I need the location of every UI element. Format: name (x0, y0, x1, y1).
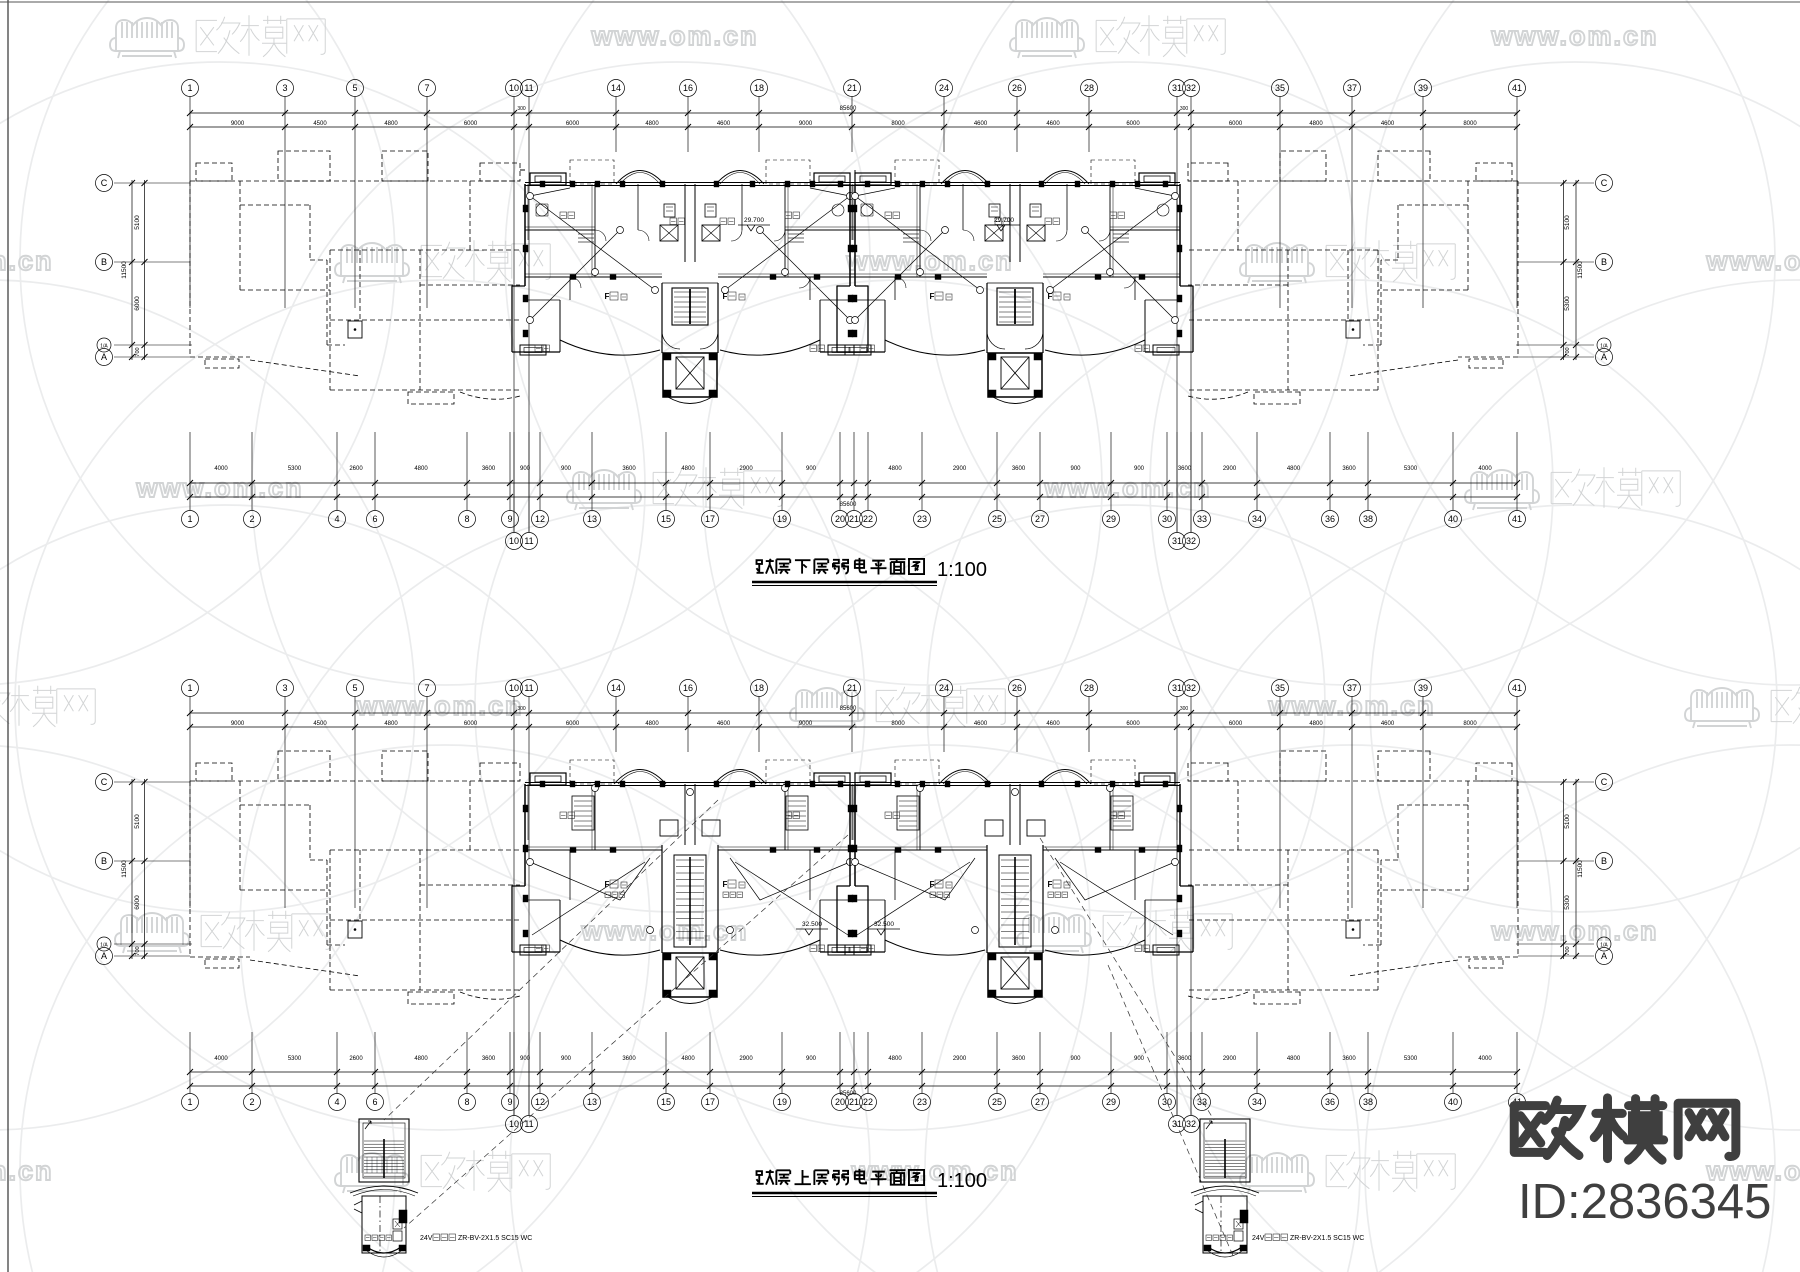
svg-text:2900: 2900 (1223, 466, 1237, 472)
svg-text:12: 12 (535, 514, 545, 524)
svg-text:4800: 4800 (414, 1056, 428, 1062)
svg-text:6000: 6000 (1126, 721, 1140, 727)
svg-text:www.om.cn: www.om.cn (1490, 21, 1658, 51)
svg-text:C: C (101, 777, 108, 787)
svg-text:4800: 4800 (414, 466, 428, 472)
svg-text:11: 11 (524, 536, 533, 546)
svg-text:10: 10 (509, 83, 519, 93)
svg-text:4600: 4600 (1046, 721, 1060, 727)
svg-text:F: F (930, 292, 935, 301)
svg-text:1:100: 1:100 (937, 1170, 987, 1192)
svg-text:6000: 6000 (134, 296, 141, 311)
svg-text:31: 31 (1172, 83, 1182, 93)
svg-text:4800: 4800 (384, 121, 398, 127)
svg-text:700: 700 (135, 347, 141, 356)
svg-text:15: 15 (661, 514, 671, 524)
svg-text:4800: 4800 (1309, 121, 1323, 127)
svg-text:www.om.cn: www.om.cn (845, 246, 1013, 276)
svg-text:B: B (1601, 856, 1607, 866)
svg-text:B: B (1601, 257, 1607, 267)
svg-text:B: B (101, 856, 107, 866)
svg-text:32.500: 32.500 (874, 921, 894, 928)
svg-text:6000: 6000 (566, 121, 580, 127)
svg-text:5300: 5300 (1404, 1056, 1418, 1062)
svg-text:6000: 6000 (566, 721, 580, 727)
svg-text:8: 8 (464, 1097, 469, 1107)
svg-text:24V: 24V (1252, 1235, 1265, 1242)
svg-text:www.om.cn: www.om.cn (1705, 246, 1800, 276)
svg-text:2: 2 (249, 514, 254, 524)
svg-text:1: 1 (187, 514, 192, 524)
svg-text:29: 29 (1106, 1097, 1116, 1107)
svg-text:700: 700 (1565, 946, 1571, 955)
svg-text:1/A: 1/A (1600, 943, 1608, 949)
svg-text:F: F (1048, 292, 1053, 301)
svg-text:11500: 11500 (1577, 261, 1584, 279)
svg-text:5300: 5300 (1404, 466, 1418, 472)
svg-text:22: 22 (863, 514, 873, 524)
svg-text:2900: 2900 (953, 466, 967, 472)
svg-text:85600: 85600 (840, 502, 857, 508)
svg-text:10: 10 (509, 536, 519, 546)
svg-text:4000: 4000 (1478, 1056, 1492, 1062)
svg-text:2900: 2900 (739, 466, 753, 472)
svg-text:6000: 6000 (464, 121, 478, 127)
svg-text:1: 1 (187, 1097, 192, 1107)
svg-text:8000: 8000 (1463, 721, 1477, 727)
svg-text:C: C (101, 178, 108, 188)
svg-text:2600: 2600 (349, 466, 363, 472)
svg-text:38: 38 (1363, 1097, 1373, 1107)
svg-text:16: 16 (683, 83, 693, 93)
svg-text:F: F (723, 880, 728, 889)
svg-text:2: 2 (249, 1097, 254, 1107)
svg-text:4800: 4800 (681, 466, 695, 472)
svg-text:F: F (1048, 880, 1053, 889)
svg-text:23: 23 (917, 514, 927, 524)
svg-text:3600: 3600 (1012, 466, 1026, 472)
svg-text:5100: 5100 (1564, 215, 1571, 230)
svg-text:4800: 4800 (681, 1056, 695, 1062)
svg-text:32: 32 (1186, 536, 1196, 546)
svg-text:30: 30 (1162, 514, 1172, 524)
svg-text:3: 3 (282, 83, 287, 93)
svg-text:www.om.cn: www.om.cn (135, 473, 303, 503)
svg-text:1/A: 1/A (100, 344, 108, 350)
svg-text:15: 15 (661, 1097, 671, 1107)
svg-text:11500: 11500 (121, 261, 128, 279)
svg-text:4600: 4600 (1381, 121, 1395, 127)
svg-text:900: 900 (806, 1056, 817, 1062)
svg-text:300: 300 (1180, 106, 1189, 112)
svg-text:31: 31 (1172, 1119, 1182, 1129)
svg-text:4800: 4800 (645, 121, 659, 127)
svg-text:17: 17 (705, 1097, 715, 1107)
svg-text:700: 700 (135, 946, 141, 955)
svg-text:3600: 3600 (482, 466, 496, 472)
svg-text:B: B (101, 257, 107, 267)
svg-text:13: 13 (587, 514, 597, 524)
svg-text:900: 900 (561, 466, 572, 472)
svg-text:900: 900 (806, 466, 817, 472)
svg-text:33: 33 (1197, 514, 1207, 524)
svg-text:5: 5 (352, 683, 357, 693)
svg-text:A: A (101, 951, 107, 961)
svg-text:3600: 3600 (1178, 1056, 1192, 1062)
svg-text:F: F (723, 292, 728, 301)
svg-text:4800: 4800 (1287, 1056, 1301, 1062)
svg-text:www.om.cn: www.om.cn (580, 916, 748, 946)
svg-text:7: 7 (424, 83, 429, 93)
svg-text:6000: 6000 (134, 895, 141, 910)
svg-text:39: 39 (1418, 683, 1428, 693)
svg-text:6000: 6000 (1126, 121, 1140, 127)
svg-text:41: 41 (1512, 83, 1522, 93)
svg-text:4600: 4600 (717, 121, 731, 127)
svg-text:34: 34 (1252, 1097, 1262, 1107)
svg-text:9000: 9000 (799, 721, 813, 727)
svg-text:F: F (605, 292, 610, 301)
svg-text:11: 11 (524, 83, 533, 93)
svg-text:F: F (605, 880, 610, 889)
svg-text:5300: 5300 (1564, 895, 1571, 910)
svg-text:33: 33 (1197, 1097, 1207, 1107)
svg-text:11500: 11500 (1577, 860, 1584, 878)
svg-text:4800: 4800 (645, 721, 659, 727)
svg-text:900: 900 (1134, 466, 1145, 472)
svg-text:5: 5 (352, 83, 357, 93)
svg-text:8000: 8000 (891, 121, 905, 127)
svg-text:13: 13 (587, 1097, 597, 1107)
svg-text:14: 14 (611, 83, 621, 93)
svg-text:4: 4 (334, 1097, 339, 1107)
svg-text:www.om.cn: www.om.cn (590, 21, 758, 51)
svg-text:6: 6 (372, 1097, 377, 1107)
svg-text:11500: 11500 (121, 860, 128, 878)
svg-text:10: 10 (509, 683, 519, 693)
svg-text:8: 8 (464, 514, 469, 524)
svg-text:4500: 4500 (313, 721, 327, 727)
svg-text:25: 25 (992, 514, 1002, 524)
svg-text:1:100: 1:100 (937, 559, 987, 581)
svg-text:www.om.cn: www.om.cn (355, 691, 523, 721)
svg-text:29.700: 29.700 (744, 217, 764, 224)
svg-text:4600: 4600 (717, 721, 731, 727)
svg-text:23: 23 (917, 1097, 927, 1107)
svg-text:19: 19 (777, 514, 787, 524)
svg-text:20: 20 (835, 1097, 845, 1107)
svg-text:3600: 3600 (1342, 1056, 1356, 1062)
svg-text:1: 1 (187, 683, 192, 693)
svg-text:5300: 5300 (1564, 296, 1571, 311)
svg-text:8000: 8000 (891, 721, 905, 727)
svg-text:4800: 4800 (1287, 466, 1301, 472)
svg-text:4000: 4000 (1478, 466, 1492, 472)
svg-text:32: 32 (1186, 83, 1196, 93)
svg-text:9: 9 (507, 1097, 512, 1107)
svg-text:26: 26 (1012, 83, 1022, 93)
svg-text:9000: 9000 (231, 721, 245, 727)
svg-text:900: 900 (1070, 466, 1081, 472)
svg-text:4500: 4500 (313, 121, 327, 127)
svg-text:35: 35 (1275, 683, 1285, 693)
svg-text:4000: 4000 (214, 1056, 228, 1062)
svg-text:4800: 4800 (888, 466, 902, 472)
svg-text:3600: 3600 (622, 466, 636, 472)
svg-text:4600: 4600 (974, 121, 988, 127)
svg-text:6000: 6000 (1229, 121, 1243, 127)
svg-text:38: 38 (1363, 514, 1373, 524)
svg-text:18: 18 (754, 83, 764, 93)
svg-text:9000: 9000 (799, 121, 813, 127)
svg-text:2900: 2900 (739, 1056, 753, 1062)
svg-text:4800: 4800 (888, 1056, 902, 1062)
svg-text:ID:2836345: ID:2836345 (1518, 1175, 1771, 1229)
svg-text:5300: 5300 (288, 466, 302, 472)
svg-text:29: 29 (1106, 514, 1116, 524)
svg-text:11: 11 (524, 683, 533, 693)
svg-text:www.om.cn: www.om.cn (1267, 691, 1435, 721)
svg-text:32: 32 (1186, 683, 1196, 693)
svg-text:24: 24 (939, 83, 949, 93)
svg-text:900: 900 (561, 1056, 572, 1062)
svg-text:F: F (930, 880, 935, 889)
svg-text:1/A: 1/A (1600, 344, 1608, 350)
svg-text:27: 27 (1035, 1097, 1045, 1107)
svg-text:2600: 2600 (349, 1056, 363, 1062)
svg-text:37: 37 (1347, 83, 1357, 93)
svg-text:900: 900 (1134, 1056, 1145, 1062)
svg-text:24V: 24V (420, 1235, 433, 1242)
svg-text:A: A (101, 352, 107, 362)
svg-text:700: 700 (1565, 347, 1571, 356)
svg-text:28: 28 (1084, 683, 1094, 693)
svg-text:8000: 8000 (1463, 121, 1477, 127)
svg-text:22: 22 (863, 1097, 873, 1107)
svg-text:300: 300 (1180, 706, 1189, 712)
svg-text:35: 35 (1275, 83, 1285, 93)
svg-text:6000: 6000 (1229, 721, 1243, 727)
svg-text:40: 40 (1448, 514, 1458, 524)
svg-text:5100: 5100 (134, 215, 141, 230)
svg-text:17: 17 (705, 514, 715, 524)
svg-text:6: 6 (372, 514, 377, 524)
svg-text:3600: 3600 (482, 1056, 496, 1062)
svg-text:4600: 4600 (1381, 721, 1395, 727)
svg-text:4800: 4800 (1309, 721, 1323, 727)
svg-text:4: 4 (334, 514, 339, 524)
svg-text:25: 25 (992, 1097, 1002, 1107)
svg-text:6000: 6000 (464, 721, 478, 727)
svg-text:21: 21 (849, 514, 859, 524)
svg-text:2900: 2900 (953, 1056, 967, 1062)
svg-text:36: 36 (1325, 514, 1335, 524)
svg-text:9: 9 (507, 514, 512, 524)
svg-text:12: 12 (535, 1097, 545, 1107)
svg-text:29.700: 29.700 (994, 217, 1014, 224)
svg-text:4600: 4600 (1046, 121, 1060, 127)
svg-text:21: 21 (847, 83, 857, 93)
svg-text:4600: 4600 (974, 721, 988, 727)
svg-text:www.om.cn: www.om.cn (1490, 916, 1658, 946)
svg-text:41: 41 (1512, 683, 1522, 693)
svg-text:18: 18 (754, 683, 764, 693)
svg-text:3: 3 (282, 683, 287, 693)
svg-text:5100: 5100 (1564, 814, 1571, 829)
svg-text:C: C (1601, 178, 1608, 188)
svg-text:26: 26 (1012, 683, 1022, 693)
svg-text:21: 21 (849, 1097, 859, 1107)
svg-text:31: 31 (1172, 536, 1182, 546)
svg-text:www.om.cn: www.om.cn (1043, 473, 1211, 503)
svg-text:19: 19 (777, 1097, 787, 1107)
svg-text:900: 900 (520, 466, 531, 472)
svg-text:3600: 3600 (1342, 466, 1356, 472)
svg-text:4800: 4800 (384, 721, 398, 727)
svg-text:300: 300 (517, 106, 526, 112)
svg-text:28: 28 (1084, 83, 1094, 93)
svg-text:7: 7 (424, 683, 429, 693)
svg-text:5100: 5100 (134, 814, 141, 829)
svg-text:20: 20 (835, 514, 845, 524)
svg-text:1: 1 (187, 83, 192, 93)
svg-text:4000: 4000 (214, 466, 228, 472)
svg-text:C: C (1601, 777, 1608, 787)
svg-text:2900: 2900 (1223, 1056, 1237, 1062)
svg-text:A: A (1601, 951, 1607, 961)
svg-text:5300: 5300 (288, 1056, 302, 1062)
svg-text:14: 14 (611, 683, 621, 693)
svg-text:1/A: 1/A (100, 943, 108, 949)
svg-text:A: A (1601, 352, 1607, 362)
svg-text:ZR-BV-2X1.5 SC15 WC: ZR-BV-2X1.5 SC15 WC (458, 1235, 532, 1242)
svg-text:40: 40 (1448, 1097, 1458, 1107)
svg-text:300: 300 (517, 706, 526, 712)
svg-text:21: 21 (847, 683, 857, 693)
svg-text:900: 900 (1070, 1056, 1081, 1062)
svg-text:900: 900 (520, 1056, 531, 1062)
svg-text:30: 30 (1162, 1097, 1172, 1107)
svg-text:39: 39 (1418, 83, 1428, 93)
svg-text:36: 36 (1325, 1097, 1335, 1107)
svg-text:3600: 3600 (1178, 466, 1192, 472)
svg-text:32: 32 (1186, 1119, 1196, 1129)
svg-text:3600: 3600 (1012, 1056, 1026, 1062)
svg-text:37: 37 (1347, 683, 1357, 693)
svg-text:ZR-BV-2X1.5 SC15 WC: ZR-BV-2X1.5 SC15 WC (1290, 1235, 1364, 1242)
svg-text:16: 16 (683, 683, 693, 693)
svg-text:3600: 3600 (622, 1056, 636, 1062)
svg-text:27: 27 (1035, 514, 1045, 524)
svg-text:34: 34 (1252, 514, 1262, 524)
svg-text:31: 31 (1172, 683, 1182, 693)
svg-text:9000: 9000 (231, 121, 245, 127)
svg-text:41: 41 (1512, 514, 1522, 524)
svg-text:32.500: 32.500 (802, 921, 822, 928)
svg-text:24: 24 (939, 683, 949, 693)
